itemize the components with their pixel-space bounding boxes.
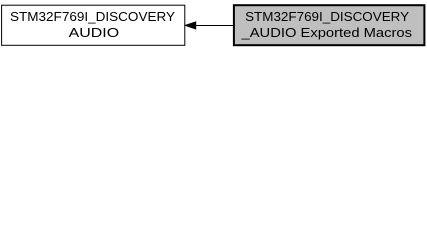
edge wire from Exported Macros to AUDIO	[196, 25, 234, 27]
node STM32F769I_DISCOVERY_AUDIO Exported Macros box (current, grey filled)	[234, 5, 425, 45]
svg-text:_AUDIO Exported Macros: _AUDIO Exported Macros	[240, 25, 412, 40]
svg-text:STM32F769I_DISCOVERY: STM32F769I_DISCOVERY	[10, 9, 175, 24]
svg-text:AUDIO: AUDIO	[69, 25, 120, 40]
edge arrowhead pointing left	[185, 22, 195, 29]
svg-text:STM32F769I_DISCOVERY: STM32F769I_DISCOVERY	[245, 9, 409, 24]
node STM32F769I_DISCOVERY AUDIO box	[2, 5, 185, 45]
